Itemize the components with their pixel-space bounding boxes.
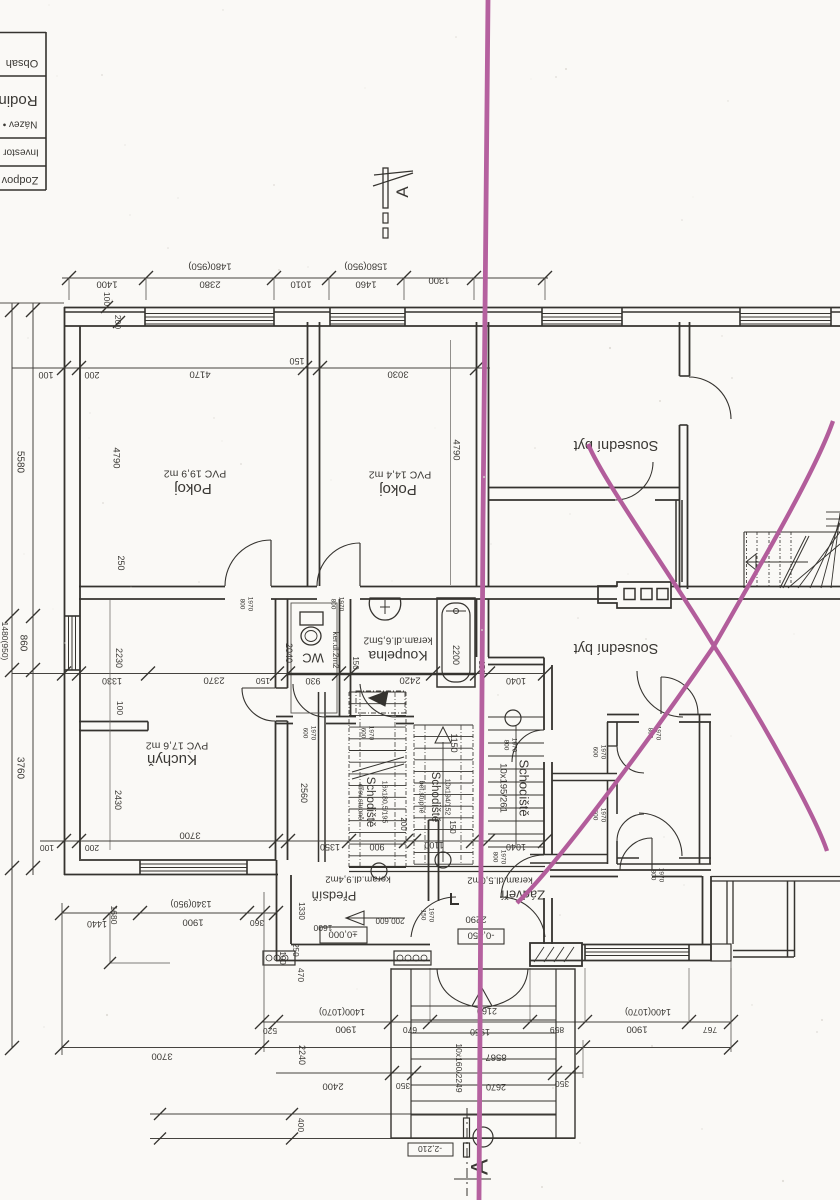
chain y913 tick x=276 <box>269 906 283 920</box>
svg-text:1970: 1970 <box>658 868 665 883</box>
svg-text:800: 800 <box>239 599 246 610</box>
svg-text:Rodin: Rodin <box>0 92 38 109</box>
svg-text:1970: 1970 <box>368 726 375 741</box>
connector x264 <box>263 892 265 1052</box>
left chain tick y=868 <box>5 861 19 875</box>
svg-text:600: 600 <box>302 728 309 739</box>
koupelna door arc with arrow <box>360 684 396 717</box>
svg-text:1010: 1010 <box>290 279 311 290</box>
svg-text:1580(950): 1580(950) <box>344 261 387 272</box>
svg-text:Pokoj: Pokoj <box>174 480 212 497</box>
interior chain y368 line <box>12 367 490 369</box>
neighbour right wall x 702-711 <box>702 876 704 944</box>
svg-text:3030: 3030 <box>387 369 408 380</box>
neighbour top wall y 870-876 <box>550 869 711 871</box>
entry door double arcs <box>437 969 481 1008</box>
chimney block <box>598 582 671 608</box>
svg-text:1970: 1970 <box>511 738 518 753</box>
svg-text:360: 360 <box>250 918 264 928</box>
svg-text:1970: 1970 <box>338 597 345 612</box>
mid horizontal wall upper face <box>79 586 225 588</box>
kitchen right wall / hall left wall <box>275 599 277 688</box>
door arc neighbour big upper <box>637 671 683 717</box>
svg-text:600: 600 <box>360 728 367 739</box>
top exterior wall inner face <box>64 325 840 327</box>
svg-text:8567: 8567 <box>485 1052 506 1063</box>
door arc Zadveri right <box>500 897 545 937</box>
chain y841 tick x=79 <box>72 834 86 848</box>
svg-text:1330: 1330 <box>102 676 122 686</box>
entry arrow <box>472 988 492 1006</box>
step arrow in Predsin <box>346 917 405 919</box>
svg-text:Obsah: Obsah <box>6 57 38 69</box>
porch bottom wall outer face <box>276 960 430 962</box>
svg-text:Koupelna: Koupelna <box>368 648 427 664</box>
svg-text:1330: 1330 <box>297 902 306 920</box>
WC room inner outline <box>291 603 337 713</box>
top chain tick x=404 <box>397 271 411 285</box>
exterior stair cheek walls <box>410 969 412 1138</box>
middle stair flight treads <box>414 724 473 726</box>
sill block right entry <box>711 944 731 961</box>
toilet <box>300 612 323 625</box>
door stop L mark <box>451 893 459 904</box>
exterior stair treads <box>411 1005 556 1007</box>
svg-text:100: 100 <box>278 951 287 965</box>
winder radiating treads <box>788 544 840 588</box>
window in top wall x 145-274 <box>145 313 274 315</box>
interior chain y673 line <box>12 673 545 675</box>
left stair flight treads <box>349 691 406 693</box>
WC door arc <box>293 684 326 717</box>
neighbour bottom partition y 854-864 <box>530 854 607 856</box>
left chain tick y=670 <box>5 663 19 677</box>
section marker A top: dash segments <box>383 213 388 223</box>
svg-text:A: A <box>393 186 412 198</box>
circle symbol hall 2 <box>435 852 451 868</box>
svg-text:200: 200 <box>399 817 408 831</box>
svg-text:800: 800 <box>650 870 657 881</box>
svg-text:800: 800 <box>503 740 510 751</box>
wall between Predsin and Zadveri <box>428 820 430 901</box>
door arc in neighbour room bottom wall <box>615 462 653 500</box>
WC koupelna bottom wall thick y674 <box>288 673 476 675</box>
left exterior wall outer face <box>64 307 66 875</box>
chain y1073 <box>276 1072 583 1074</box>
svg-text:150: 150 <box>448 820 457 834</box>
top chain tick x=274 <box>267 271 281 285</box>
svg-text:1100: 1100 <box>424 840 443 850</box>
stair direction arrow <box>746 561 808 563</box>
mid horizontal wall lower face <box>79 598 225 600</box>
chain y841 tick x=488 <box>481 834 495 848</box>
svg-text:930: 930 <box>305 676 320 686</box>
neighbour porch right wall <box>787 881 789 957</box>
svg-text:1900: 1900 <box>335 1024 356 1035</box>
top chain tick x=329 <box>322 271 336 285</box>
bottom landing lines <box>150 1113 556 1115</box>
bottom-left chain y913 <box>62 912 276 914</box>
door sill hatched block left <box>263 951 295 965</box>
chain y1022 tick x=731 <box>724 1015 738 1029</box>
chain y673 tick x=433 <box>426 667 440 681</box>
interior chain y841 line <box>40 840 545 842</box>
window in neighbour bottom wall x 585-689 <box>585 948 689 950</box>
level -0,450 boxed <box>458 929 504 944</box>
door Pokoj1: leaf and arc <box>270 540 272 586</box>
svg-text:1150: 1150 <box>449 733 459 752</box>
extension line right 4790 <box>450 340 452 585</box>
svg-text:5580: 5580 <box>15 451 26 474</box>
chain y913 tick x=247 <box>240 906 254 920</box>
left exterior wall inner face <box>79 326 81 859</box>
chain y1022 tick x=276 <box>269 1015 283 1029</box>
chain y673 tick x=64 <box>57 667 71 681</box>
neighbour winder staircase <box>743 532 745 588</box>
right stair flight treads <box>488 716 544 718</box>
chain y841 tick x=288 <box>281 834 295 848</box>
chain y841 tick x=349 <box>342 834 356 848</box>
middle stair arrow <box>442 742 444 862</box>
chain y368 tick x=305 <box>298 361 312 375</box>
chain y368 tick x=477 <box>470 361 484 375</box>
svg-text:860: 860 <box>18 635 29 652</box>
wall between WC and Koupelna <box>339 599 341 716</box>
upper flight short treads <box>826 511 840 513</box>
svg-text:Sousední byt: Sousední byt <box>574 640 659 656</box>
section marker bottom bar <box>464 1118 470 1138</box>
left chain outer vertical line <box>11 303 13 1048</box>
section marker bottom base line <box>454 1178 491 1180</box>
chain y841 tick x=276 <box>269 834 283 848</box>
stair stringer diagonal <box>780 536 806 588</box>
door Pokoj2: leaf and arc <box>359 543 361 586</box>
chain y673 tick x=545 <box>538 667 552 681</box>
svg-text:1400(1070): 1400(1070) <box>319 1007 365 1017</box>
window in top wall x 542-622 <box>542 313 622 315</box>
top dimension chain line <box>62 277 548 279</box>
svg-text:16x180,5/195: 16x180,5/195 <box>381 781 388 824</box>
hall right wall x 544-552 <box>543 658 545 731</box>
svg-text:100: 100 <box>40 843 54 853</box>
svg-text:2400: 2400 <box>322 1081 343 1092</box>
chain y1022 tick x=391 <box>384 1015 398 1029</box>
chain y841 tick x=545 <box>538 834 552 848</box>
svg-text:10x195/261: 10x195/261 <box>498 763 509 813</box>
svg-text:3700: 3700 <box>151 1051 172 1062</box>
porch left wall outer face <box>276 860 278 961</box>
door arc small room 1 <box>617 746 644 773</box>
svg-text:1480(950): 1480(950) <box>0 622 10 661</box>
left chain tick y=616 <box>5 609 19 623</box>
bottom-left exterior wall inner face <box>79 859 276 861</box>
chain y673 tick x=148 <box>141 667 155 681</box>
svg-text:100: 100 <box>115 701 125 715</box>
svg-text:520: 520 <box>263 1026 277 1036</box>
connector x731 <box>730 961 732 1052</box>
svg-text:2040: 2040 <box>284 643 294 663</box>
magenta X stroke 1 (top-left to bottom-right) <box>588 444 827 851</box>
magenta vertical marker line <box>479 0 488 1200</box>
chain y1022 tick x=585 <box>578 1015 592 1029</box>
svg-text:±0,000: ±0,000 <box>329 929 358 940</box>
neighbour bottom wall outer face <box>530 960 711 962</box>
left chain tick y=310 <box>5 303 19 317</box>
porch bottom wall inner face <box>291 944 430 946</box>
chain y841 tick x=406 <box>399 834 413 848</box>
terrace pier vertical pair <box>726 881 728 944</box>
chain y368 tick x=320 <box>313 361 327 375</box>
chain y913 tick x=110 <box>103 906 117 920</box>
chain y841 tick x=64 <box>57 834 71 848</box>
section line A bottom dash-dot <box>466 1108 468 1196</box>
neighbour unit top wall y 714-722 <box>607 714 639 716</box>
door arc at corridor wall <box>689 377 731 419</box>
svg-text:PVC 19,9 m2: PVC 19,9 m2 <box>164 467 227 479</box>
svg-text:1400: 1400 <box>96 279 117 290</box>
svg-text:Schodiště: Schodiště <box>364 777 376 828</box>
svg-text:250: 250 <box>291 943 300 957</box>
svg-text:1040: 1040 <box>506 842 526 852</box>
porch left wall inner face <box>290 875 292 944</box>
hall top wall right segment y 657-665 <box>488 657 544 659</box>
left stair break line <box>352 764 404 779</box>
svg-text:3760: 3760 <box>15 757 26 780</box>
svg-text:1970: 1970 <box>600 745 607 760</box>
svg-text:1440: 1440 <box>87 919 107 929</box>
chain y913 tick x=140 <box>133 906 147 920</box>
circle symbol hall 1 <box>371 863 387 879</box>
svg-text:1400(1070): 1400(1070) <box>625 1007 671 1017</box>
top chain tick x=146 <box>139 271 153 285</box>
magenta X stroke 2 (top-right to bottom-left) <box>517 421 833 903</box>
window in top wall x 330-405 <box>330 313 405 315</box>
chain y841 tick x=414 <box>407 834 421 848</box>
svg-text:1970: 1970 <box>428 908 435 923</box>
svg-text:350: 350 <box>555 1079 569 1089</box>
svg-text:2200: 2200 <box>451 645 461 665</box>
svg-text:1900: 1900 <box>626 1024 647 1035</box>
bottom chain y1022 <box>262 1021 731 1023</box>
wall WC koupelna bottom y 716-724 <box>276 716 293 718</box>
svg-text:Schodiště: Schodiště <box>516 759 531 816</box>
right stair stem and circle <box>515 726 517 845</box>
connector x62 <box>61 903 63 1055</box>
svg-text:2670: 2670 <box>486 1082 506 1092</box>
svg-text:Pokoj: Pokoj <box>379 481 417 498</box>
entry pier block <box>530 943 582 966</box>
top exterior wall outer face <box>64 307 840 309</box>
svg-text:keram.dl.6,5m2: keram.dl.6,5m2 <box>363 635 432 646</box>
chain y1022 tick x=430 <box>423 1015 437 1029</box>
svg-text:400: 400 <box>296 1118 306 1132</box>
chain y1022 tick x=530 <box>523 1015 537 1029</box>
neighbour corridor wall x 679-687 <box>679 425 681 589</box>
bottom-left exterior wall outer face <box>64 874 278 876</box>
chain y673 tick x=79 <box>72 667 86 681</box>
svg-text:150: 150 <box>420 910 427 921</box>
chain y368 tick x=64 <box>57 361 71 375</box>
section marker A top: hollow bar <box>383 168 388 208</box>
svg-text:1970: 1970 <box>247 597 254 612</box>
svg-text:200: 200 <box>85 843 99 853</box>
svg-text:150: 150 <box>256 676 270 686</box>
T-stub wall from top wall <box>679 322 681 376</box>
svg-text:10x194/152: 10x194/152 <box>444 779 451 816</box>
svg-text:350: 350 <box>396 1081 410 1091</box>
svg-text:1460: 1460 <box>355 279 376 290</box>
svg-text:100: 100 <box>38 370 53 380</box>
svg-text:1970: 1970 <box>310 726 317 741</box>
svg-text:Investor: Investor <box>3 147 39 158</box>
neighbour partition vertical x 607-617 lower <box>607 781 609 864</box>
chain y1022 tick x=262 <box>255 1015 269 1029</box>
window in left wall y 616-670 <box>68 616 70 670</box>
svg-text:4790: 4790 <box>111 447 122 468</box>
svg-text:4790: 4790 <box>451 439 462 460</box>
svg-text:670: 670 <box>403 1025 417 1035</box>
chain y913 tick x=62 <box>55 906 69 920</box>
stair hall bottom edge lines <box>349 866 545 868</box>
svg-text:200,600: 200,600 <box>375 916 404 925</box>
section marker bottom circle <box>473 1127 493 1147</box>
chain y1022 tick x=689 <box>682 1015 696 1029</box>
connector x110 with step <box>109 913 111 963</box>
svg-text:2230: 2230 <box>114 648 124 668</box>
terrace edge double line right <box>711 876 840 878</box>
exterior stair outline <box>391 969 575 1138</box>
stub below neighbour room wall <box>675 500 677 582</box>
neighbour bottom wall inner face <box>582 944 711 946</box>
door arc small room 2 <box>617 814 644 841</box>
svg-text:200: 200 <box>84 370 99 380</box>
chain y673 tick x=288 <box>281 667 295 681</box>
door arc neighbour top wall <box>620 838 652 870</box>
extension line x583 <box>582 1040 584 1078</box>
svg-text:2370: 2370 <box>203 675 224 686</box>
svg-text:2290: 2290 <box>465 914 486 925</box>
svg-text:1680: 1680 <box>109 906 119 925</box>
chain y841 tick x=473 <box>466 834 480 848</box>
neighbour porch bottom wall <box>733 950 794 952</box>
svg-text:1900: 1900 <box>182 917 203 928</box>
svg-text:150: 150 <box>289 356 304 366</box>
svg-text:1040: 1040 <box>506 676 526 686</box>
svg-text:WC: WC <box>302 650 324 665</box>
svg-text:Schodiště: Schodiště <box>429 772 441 823</box>
level box -2,210 <box>408 1143 453 1156</box>
corner tick marks <box>101 301 113 313</box>
title block table top-left <box>45 32 47 190</box>
chain y673 tick x=339 <box>332 667 346 681</box>
corridor wall x 318-325 <box>318 692 320 862</box>
window in bottom-left wall x 140-247 <box>140 863 247 865</box>
svg-text:2560: 2560 <box>299 783 309 803</box>
koupelna right wall <box>476 599 478 657</box>
left chain horizontal connector top <box>0 302 64 304</box>
wash basin <box>369 598 400 620</box>
kitchen door arc <box>242 688 275 721</box>
left chain tick 1048 <box>5 1041 19 1055</box>
kitchen alcove wall <box>79 721 148 723</box>
chain y673 tick x=488 <box>481 667 495 681</box>
overall chain y1047 <box>62 1047 731 1049</box>
wall between Pokoj1 and Pokoj2 <box>307 322 309 586</box>
door arc Predsin to Zadveri left <box>411 897 456 937</box>
svg-text:600: 600 <box>592 747 599 758</box>
level +0,000 boxed <box>320 927 367 943</box>
top chain tick x=69 <box>62 271 76 285</box>
svg-text:900: 900 <box>369 842 384 852</box>
svg-text:Kuchyň: Kuchyň <box>147 751 197 768</box>
svg-text:2380: 2380 <box>199 279 220 290</box>
door sill hatched block entry <box>394 951 431 965</box>
window in top wall x 740-831 <box>740 313 831 315</box>
svg-text:3700: 3700 <box>179 830 200 841</box>
svg-text:800: 800 <box>330 599 337 610</box>
svg-text:767: 767 <box>703 1025 717 1035</box>
top wall pier band lines <box>64 311 145 313</box>
bathtub <box>437 598 475 687</box>
chain y673 tick x=277 <box>270 667 284 681</box>
chain y673 tick x=477 <box>470 667 484 681</box>
svg-text:1480(950): 1480(950) <box>188 261 231 272</box>
section marker A top: arrow lines <box>374 171 413 175</box>
svg-text:470: 470 <box>296 968 306 982</box>
svg-text:Název •: Název • <box>2 119 37 130</box>
extension lines chain y1022 <box>390 968 392 1022</box>
chain y673 tick x=351 <box>344 667 358 681</box>
svg-text:1300: 1300 <box>428 275 449 286</box>
dash-dot landing rect below koupelna door <box>356 691 405 713</box>
svg-text:-2,210: -2,210 <box>418 1144 442 1154</box>
neighbour unit top door leaf and arc <box>660 677 662 714</box>
neighbour partition horizontal y 773-781 <box>552 773 617 775</box>
svg-text:Zodpov: Zodpov <box>1 174 38 186</box>
neighbour partition vertical x 607-617 upper <box>607 722 609 773</box>
neighbour room bottom wall y 487-500 <box>488 487 679 489</box>
left chain inner vertical line <box>32 303 34 875</box>
svg-text:4170: 4170 <box>189 369 210 380</box>
top chain tick x=474 <box>467 271 481 285</box>
svg-text:PVC 17,6 m2: PVC 17,6 m2 <box>146 739 209 751</box>
door arc neighbour lower right <box>639 813 682 856</box>
svg-text:250: 250 <box>116 555 126 570</box>
door arc hall right wall lower <box>501 855 544 898</box>
svg-text:PVC 14,4 m2: PVC 14,4 m2 <box>369 468 432 480</box>
svg-text:dřev.stupně: dřev.stupně <box>357 784 364 820</box>
bathtub tap <box>454 609 459 614</box>
top chain extension lines <box>68 278 70 300</box>
top chain tick x=545 <box>538 271 552 285</box>
chimney flue squares <box>624 589 635 600</box>
chain y913 tick x=263 <box>256 906 270 920</box>
svg-text:bet.stupně: bet.stupně <box>418 781 425 814</box>
svg-text:859: 859 <box>550 1025 564 1035</box>
svg-text:150: 150 <box>351 656 360 670</box>
chain y368 tick x=79 <box>72 361 86 375</box>
svg-text:keram.dl.5,0m2: keram.dl.5,0m2 <box>467 875 532 886</box>
extension line kitchen partition <box>109 600 111 850</box>
wall between Pokoj2 and neighbour flat <box>476 322 478 586</box>
svg-text:800: 800 <box>492 852 499 863</box>
svg-text:Předsíň: Předsíň <box>312 888 357 903</box>
neighbour unit east wall x 699-710 <box>699 714 701 864</box>
svg-text:1970: 1970 <box>600 808 607 823</box>
svg-text:2430: 2430 <box>113 790 123 810</box>
svg-text:1970: 1970 <box>500 850 507 865</box>
svg-text:1340(950): 1340(950) <box>170 899 211 909</box>
